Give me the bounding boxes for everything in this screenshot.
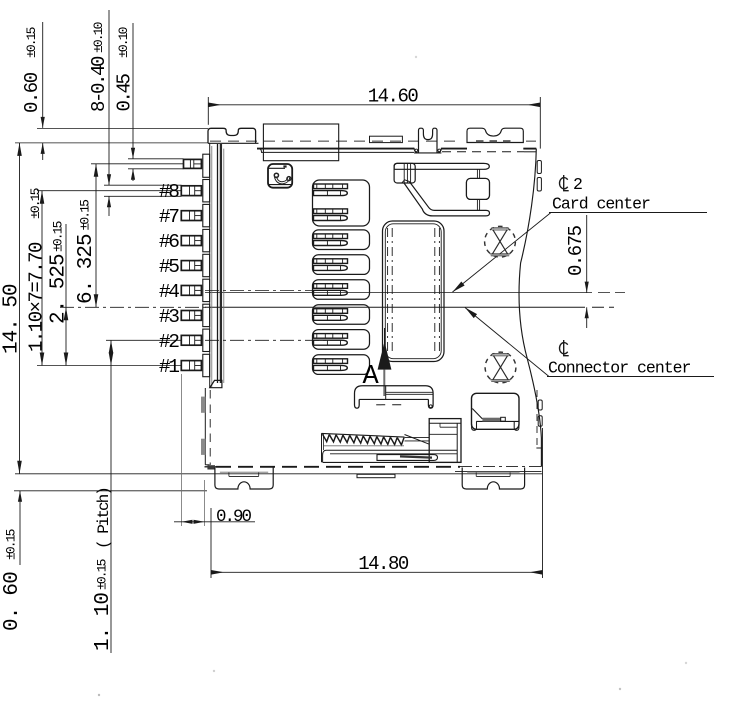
svg-text:2. 525: 2. 525 [48,254,71,324]
svg-text:14. 50: 14. 50 [1,284,24,354]
svg-text:Connector center: Connector center [548,359,691,378]
svg-text:0. 60: 0. 60 [1,572,24,631]
svg-text:#8: #8 [159,181,179,203]
svg-text:±0.15: ±0.15 [51,221,66,252]
svg-text:#5: #5 [159,256,179,278]
svg-text:0.675: 0.675 [565,225,587,276]
svg-text:0.45: 0.45 [114,73,136,111]
svg-text:Card center: Card center [552,195,650,214]
svg-text:14.80: 14.80 [358,553,409,575]
svg-text:#1: #1 [159,356,179,378]
svg-text:#3: #3 [159,306,179,328]
svg-text:0.90: 0.90 [216,507,252,527]
svg-text:±0.15: ±0.15 [78,200,93,231]
svg-text:#4: #4 [159,281,179,303]
svg-text:±0.15: ±0.15 [28,188,43,219]
svg-text:8-0.40: 8-0.40 [88,56,110,112]
svg-text:#6: #6 [159,231,179,253]
svg-text:( Pitch): ( Pitch) [95,488,113,549]
svg-text:#7: #7 [159,206,179,228]
svg-text:6. 325: 6. 325 [75,234,98,304]
svg-text:±0.15: ±0.15 [95,559,110,590]
svg-text:1. 10: 1. 10 [92,593,115,651]
svg-text:±0.15: ±0.15 [4,529,19,560]
svg-text:A: A [363,362,380,392]
svg-text:±0.15: ±0.15 [24,27,39,58]
svg-text:0.60: 0.60 [21,72,43,113]
svg-text:±0.10: ±0.10 [116,27,131,58]
svg-text:#2: #2 [159,331,179,353]
svg-text:±0.10: ±0.10 [91,22,106,53]
svg-text:2: 2 [573,175,582,194]
svg-text:14.60: 14.60 [368,86,419,108]
svg-text:1.10×7=7.70: 1.10×7=7.70 [26,242,48,352]
